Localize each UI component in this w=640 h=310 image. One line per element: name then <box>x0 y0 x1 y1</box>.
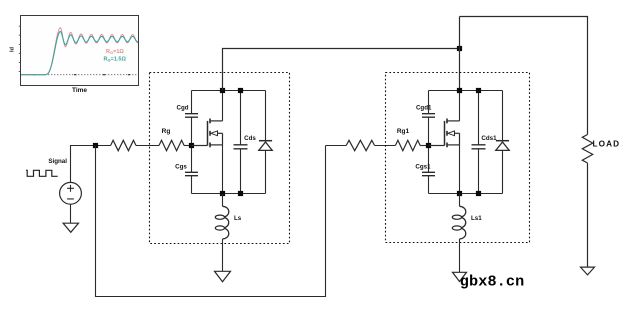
resistor R2 (external gate) <box>346 140 374 150</box>
dashed box DUT2 <box>386 73 530 243</box>
resistor Rg <box>159 140 184 150</box>
wire drain M1 to node B <box>223 49 460 91</box>
capacitor Cgs <box>185 172 198 175</box>
svg-text:RG=1Ω: RG=1Ω <box>106 49 124 55</box>
wire source M1 vertical <box>222 145 224 194</box>
ground (source M2) <box>453 272 467 281</box>
wire source to Ls1 <box>459 194 461 207</box>
svg-text:Cds: Cds <box>244 135 256 142</box>
wire R1 to Rg <box>136 145 159 147</box>
ground (source M1) <box>215 271 231 282</box>
mosfet M2 <box>429 145 445 147</box>
wire Cgd-Cgs branch <box>191 91 193 194</box>
resistor LOAD <box>582 135 592 164</box>
wire drain M2 vertical <box>459 91 461 121</box>
junction top rail Cds <box>238 88 243 93</box>
wire Cgd1-Cgs1 branch <box>428 91 430 194</box>
svg-text:Rg1: Rg1 <box>397 128 410 135</box>
junction bottom rail Cds <box>238 191 243 196</box>
capacitor Cgs1 <box>422 172 435 175</box>
svg-text:Cgd1: Cgd1 <box>416 105 432 112</box>
ground (signal source) <box>63 223 78 232</box>
ground (load) <box>581 267 595 275</box>
wire Rg to gate node <box>184 145 192 147</box>
wire Cds branch <box>240 91 242 194</box>
wire diode1 branch <box>502 91 504 194</box>
wire top rail M2 <box>429 90 503 92</box>
resistor R1 (external gate) <box>111 140 136 150</box>
wire drain M1 vertical <box>222 91 224 121</box>
wire loop to R2 <box>326 145 347 147</box>
wire drain M2 vertical upper <box>459 17 461 91</box>
wire source to Ls <box>222 194 224 207</box>
junction top rail Cds1 <box>476 88 481 93</box>
junction bottom rail Cds1 <box>476 191 481 196</box>
inset chart zero baseline <box>21 74 138 76</box>
capacitor Cgd <box>185 114 198 118</box>
body diode D2 <box>496 140 509 142</box>
inset chart frame <box>21 16 139 86</box>
svg-text:gbx8.cn: gbx8.cn <box>460 272 525 290</box>
svg-text:Cgd: Cgd <box>176 105 188 112</box>
dashed box DUT1 <box>150 73 290 244</box>
wire top rail M1 <box>192 90 266 92</box>
inductor Ls1 <box>460 206 466 239</box>
square wave glyph <box>26 170 58 176</box>
wire top to load <box>460 17 588 135</box>
wire source M2 vertical <box>459 145 461 194</box>
body diode D1 <box>259 140 272 142</box>
wire bottom rail M2 <box>429 193 503 195</box>
wire diode branch <box>265 91 267 194</box>
node B (drain junction) <box>457 46 462 51</box>
wire Rg1 to gate node <box>420 145 428 147</box>
svg-text:Signal: Signal <box>48 158 67 165</box>
junction bottom rail source M1 <box>220 191 225 196</box>
svg-text:RG=1.5Ω: RG=1.5Ω <box>104 57 127 63</box>
capacitor Cgd1 <box>422 114 435 118</box>
junction top rail drain M2 <box>457 88 462 93</box>
svg-text:Id: Id <box>10 47 16 52</box>
wire R2 to Rg1 <box>375 145 396 147</box>
node gate M1 <box>189 143 194 148</box>
svg-text:Rg: Rg <box>162 128 171 135</box>
svg-text:Time: Time <box>72 87 87 94</box>
wire load to ground <box>587 163 589 267</box>
wire bottom loop to stage 2 <box>96 146 326 297</box>
inset chart curve RG=1 (pink) <box>21 28 138 75</box>
svg-text:Cgs1: Cgs1 <box>415 164 431 171</box>
wire bottom rail M1 <box>192 193 266 195</box>
mosfet M1 <box>192 145 208 147</box>
wire Ls to ground <box>222 239 224 271</box>
node gate M2 <box>426 143 431 148</box>
wire Ls1 to ground <box>459 239 461 272</box>
inset chart curve RG=1.5 (teal) <box>21 32 138 75</box>
svg-text:Cgs: Cgs <box>175 164 187 171</box>
node A (gate bus junction) <box>93 143 98 148</box>
svg-text:LOAD: LOAD <box>593 140 621 149</box>
wire VS top <box>71 146 111 183</box>
junction top rail drain M1 <box>220 88 225 93</box>
resistor Rg1 <box>395 140 420 150</box>
wire Cds1 branch <box>478 91 480 194</box>
svg-text:Cds1: Cds1 <box>481 135 497 142</box>
capacitor Cds <box>234 145 248 149</box>
wire VS bottom <box>70 204 72 223</box>
inset chart y-axis ticks <box>19 26 21 71</box>
capacitor Cds1 <box>472 145 486 149</box>
junction bottom rail source M2 <box>457 191 462 196</box>
voltage source VS <box>60 182 82 204</box>
svg-text:Ls: Ls <box>234 215 242 222</box>
svg-text:Ls1: Ls1 <box>471 215 482 222</box>
inductor Ls <box>223 206 229 239</box>
